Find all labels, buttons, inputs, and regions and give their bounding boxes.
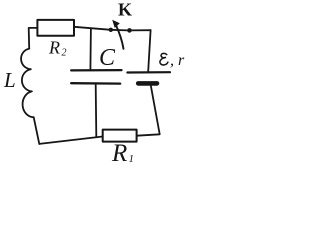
resistor R2: [37, 20, 74, 36]
svg-text:1: 1: [129, 153, 135, 165]
wire switch to top-right corner: [130, 29, 151, 31]
wire top-left corner to R2: [29, 28, 38, 49]
svg-text:C: C: [99, 45, 116, 71]
svg-text:R: R: [48, 37, 60, 57]
switch left contact dot: [109, 28, 113, 32]
switch right contact dot: [127, 28, 132, 33]
wire right branch upper: [148, 30, 150, 71]
wire right branch lower: [137, 86, 160, 136]
capacitor C top plate: [71, 69, 121, 72]
wire between switch contacts: [111, 29, 130, 32]
resistor R1: [103, 130, 137, 142]
wire R2 to switch left contact: [74, 27, 111, 30]
svg-text:R: R: [111, 140, 127, 166]
svg-text:2: 2: [62, 48, 67, 59]
switch blade arrowhead: [112, 20, 120, 28]
wire capacitor branch lower: [95, 85, 98, 137]
switch K blade: [116, 25, 124, 49]
wire capacitor branch upper: [89, 29, 92, 70]
label EMF e,r: [160, 53, 168, 65]
inductor L: [21, 49, 34, 118]
capacitor C bottom plate: [71, 82, 120, 85]
svg-text:L: L: [3, 68, 16, 92]
battery positive plate: [127, 71, 170, 74]
wire bottom-left to inductor: [34, 117, 40, 144]
svg-text:, r: , r: [170, 52, 185, 69]
wire bottom: [39, 137, 102, 144]
battery negative plate: [138, 81, 157, 86]
svg-text:K: K: [118, 0, 132, 19]
